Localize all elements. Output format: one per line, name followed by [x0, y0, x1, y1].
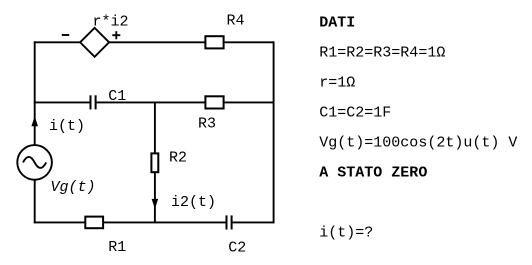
svg-text:R3: R3	[198, 116, 216, 133]
svg-text:C1=C2=1F: C1=C2=1F	[319, 104, 391, 121]
svg-text:R2: R2	[169, 150, 187, 167]
svg-text:r=1Ω: r=1Ω	[319, 74, 355, 91]
svg-text:C2: C2	[228, 239, 246, 256]
svg-text:A STATO ZERO: A STATO ZERO	[319, 164, 427, 181]
svg-text:i(t)=?: i(t)=?	[319, 224, 373, 241]
svg-text:r*i2: r*i2	[93, 14, 129, 31]
svg-text:i(t): i(t)	[49, 118, 85, 135]
svg-text:Vg(t)=100cos(2t)u(t) V: Vg(t)=100cos(2t)u(t) V	[319, 134, 517, 151]
svg-text:i2(t): i2(t)	[171, 194, 216, 211]
svg-text:C1: C1	[108, 88, 126, 105]
svg-text:DATI: DATI	[319, 14, 355, 31]
svg-text:R4: R4	[227, 12, 245, 29]
svg-text:Vg(t): Vg(t)	[51, 179, 96, 196]
svg-text:R1: R1	[108, 239, 126, 256]
svg-text:R1=R2=R3=R4=1Ω: R1=R2=R3=R4=1Ω	[319, 44, 445, 61]
